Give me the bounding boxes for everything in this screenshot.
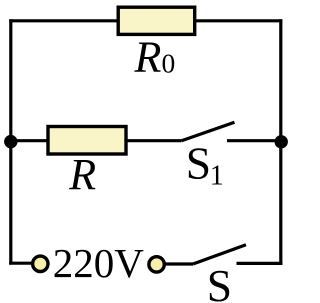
switch S1 blade <box>182 122 235 140</box>
wire: top-right horizontal <box>195 19 283 22</box>
node right junction <box>275 135 288 148</box>
svg-text:0: 0 <box>162 48 176 79</box>
terminal right (220V source) <box>149 257 164 272</box>
svg-text:220V: 220V <box>53 240 145 286</box>
svg-text:R: R <box>134 33 162 82</box>
node left junction <box>4 135 17 148</box>
wire: right vertical <box>279 19 282 265</box>
resistor R0 <box>118 7 195 34</box>
svg-text:S: S <box>186 138 211 189</box>
resistor R <box>48 127 126 155</box>
wire: left vertical <box>9 19 12 264</box>
switch S blade <box>193 245 246 264</box>
wire: middle R to switch S1 <box>126 139 182 142</box>
svg-text:R: R <box>68 150 96 199</box>
wire: S fixed contact to bottom-right corner <box>237 262 283 265</box>
wire: bottom-left horizontal <box>9 262 33 265</box>
svg-text:1: 1 <box>210 161 224 192</box>
svg-text:S: S <box>207 260 232 303</box>
terminal left (220V source) <box>33 256 48 271</box>
wire: middle left (node to R) <box>9 139 48 142</box>
wire: top-left horizontal <box>9 19 118 22</box>
wire: terminal to switch S <box>165 262 194 265</box>
wire: S1 fixed contact to right node <box>227 139 282 142</box>
